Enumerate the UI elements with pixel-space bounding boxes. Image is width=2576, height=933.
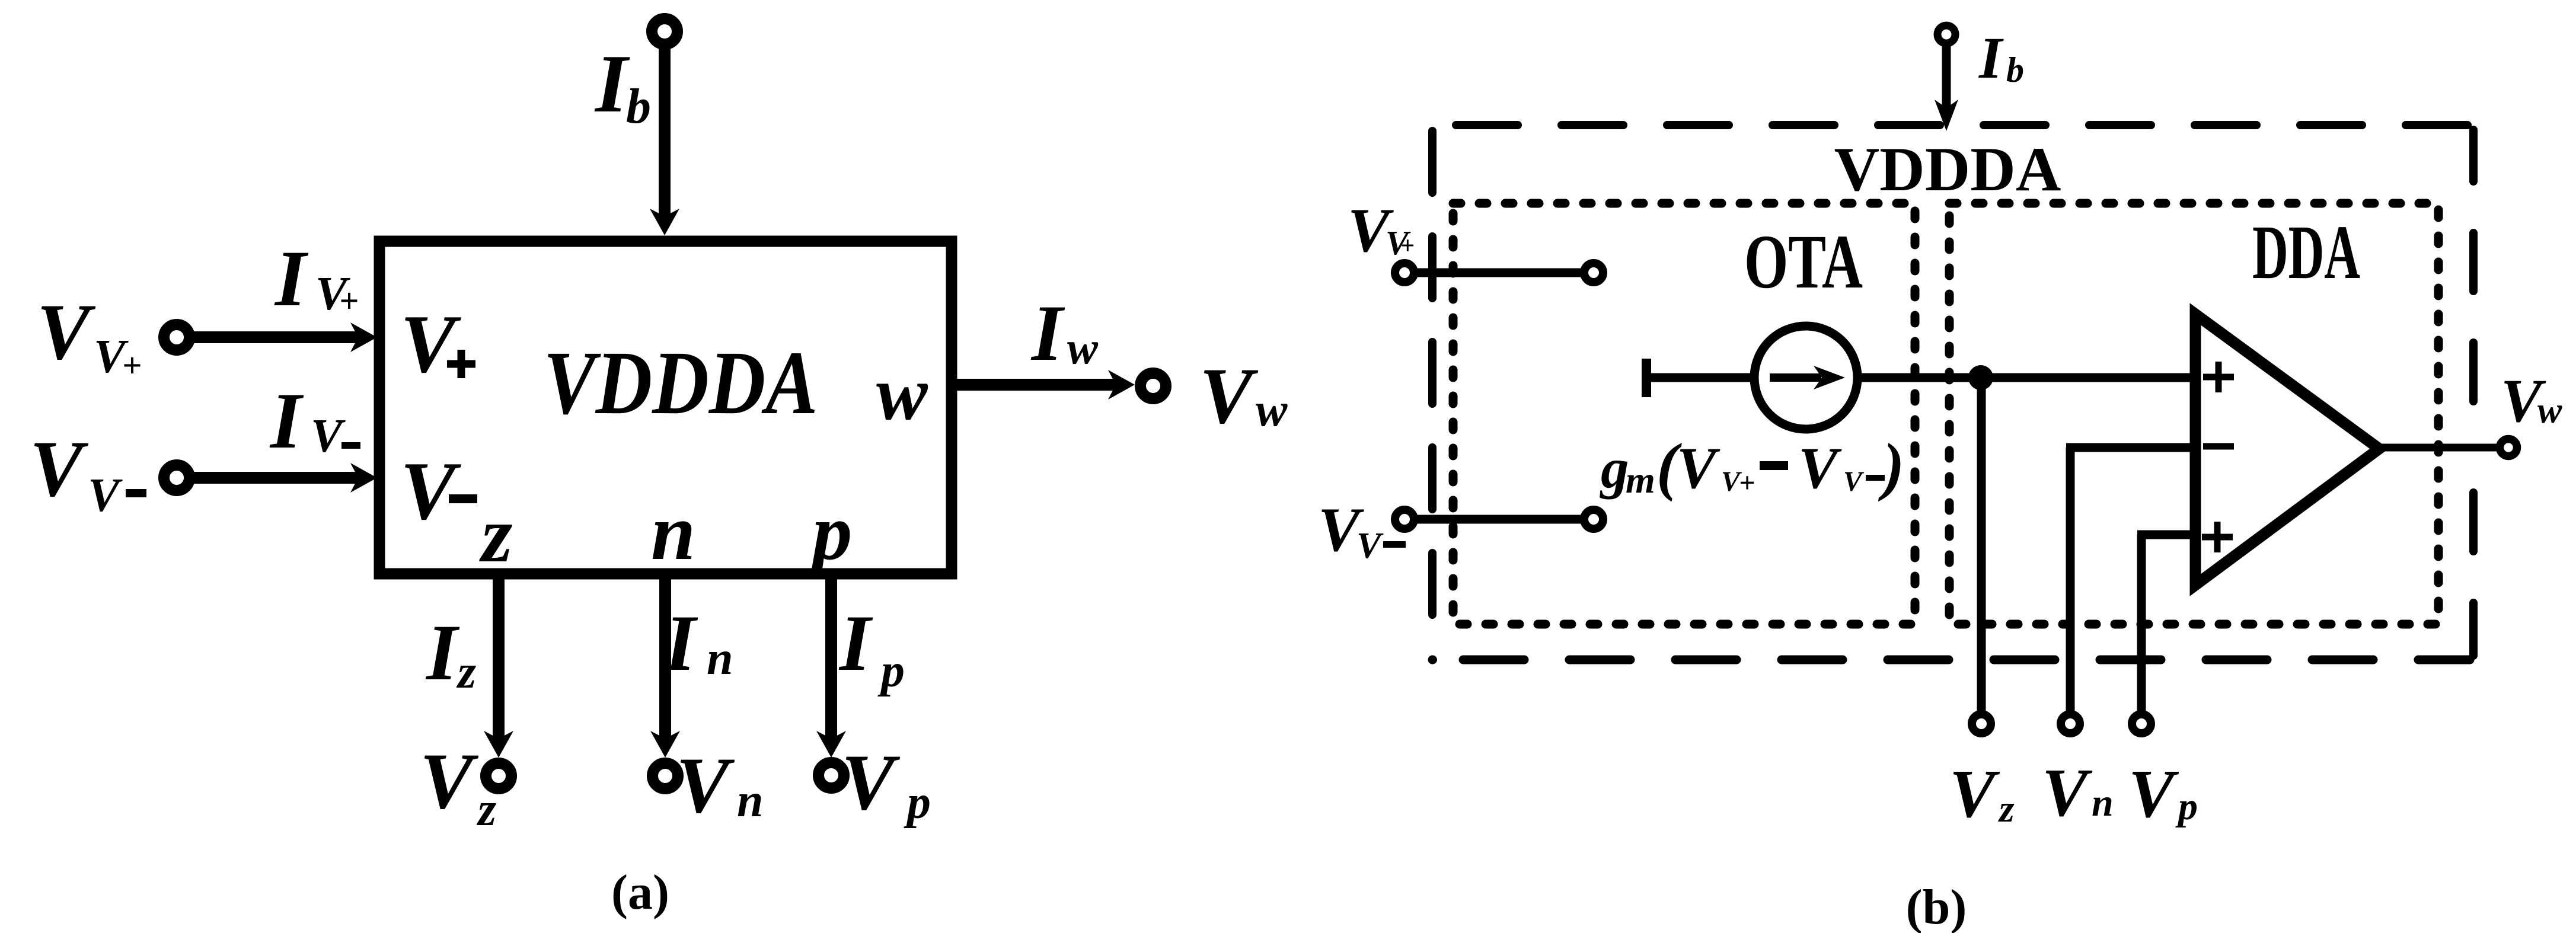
wire VV- stub	[1414, 515, 1584, 524]
terminal Vp (a)	[819, 763, 844, 788]
svg-text:+: +	[339, 282, 359, 320]
terminal Vz (b)	[1972, 714, 1991, 733]
svg-text:n: n	[2092, 781, 2114, 825]
plus input 1 mark	[2203, 362, 2234, 392]
svg-text:V: V	[420, 737, 479, 826]
svg-text:+: +	[122, 346, 142, 385]
svg-text:DDA: DDA	[2252, 210, 2360, 295]
wire junction down to Vz	[1977, 378, 1986, 711]
svg-text:V: V	[88, 469, 123, 522]
svg-text:n: n	[707, 632, 733, 685]
wire Vp vertical	[2137, 535, 2146, 711]
svg-text:+: +	[1400, 232, 1415, 260]
terminal Vz (a)	[486, 763, 512, 789]
svg-text:V: V	[1677, 435, 1720, 501]
svg-text:OTA: OTA	[1744, 219, 1863, 305]
svg-text:b: b	[626, 79, 651, 134]
svg-text:w: w	[1067, 322, 1099, 373]
terminal VV+	[164, 325, 190, 350]
terminal Vw (b)	[2500, 439, 2517, 456]
arrow Ib (b)	[1935, 100, 1958, 131]
arrow into V-	[350, 463, 377, 493]
arrow z	[484, 731, 513, 758]
arrow Ib into box	[650, 209, 679, 235]
svg-text:+: +	[1739, 467, 1755, 499]
svg-text:n: n	[651, 488, 695, 577]
svg-text:w: w	[1256, 384, 1288, 436]
terminal VV+ (b)	[1395, 263, 1414, 282]
terminal Vw (a)	[1141, 373, 1166, 399]
current source arrow	[1770, 373, 1821, 382]
svg-text:V: V	[37, 288, 96, 376]
wire VV+ stub	[1414, 269, 1584, 277]
svg-text:p: p	[904, 777, 931, 829]
wire Ib (a)	[659, 44, 671, 221]
svg-text:VDDDA: VDDDA	[1834, 135, 2061, 204]
svg-text:p: p	[877, 645, 905, 697]
VDDDA block U1	[379, 241, 952, 574]
arrow n	[650, 731, 680, 758]
wire Vn vertical	[2066, 448, 2075, 711]
svg-text:z: z	[456, 646, 476, 698]
DDA dotted box	[1949, 203, 2438, 624]
wire DDA output	[2374, 444, 2497, 452]
svg-text:I: I	[1978, 25, 2004, 91]
wire w output	[952, 379, 1121, 391]
svg-text:g: g	[1600, 437, 1629, 500]
wire n pin	[659, 574, 671, 742]
svg-text:w: w	[876, 351, 928, 436]
svg-text:I: I	[838, 599, 873, 688]
arrow into V+	[350, 322, 377, 352]
VDDDA outer dashed box	[1432, 125, 2473, 660]
arrow p	[816, 731, 846, 758]
svg-text:V: V	[2128, 756, 2179, 832]
svg-text:V: V	[30, 425, 89, 513]
svg-text:p: p	[2175, 785, 2198, 828]
svg-text:V: V	[1356, 526, 1384, 566]
terminal VV-	[164, 465, 190, 491]
wire Vp horizontal to DDA plus2	[2137, 531, 2190, 539]
svg-text:V: V	[1843, 466, 1865, 497]
svg-text:V: V	[1199, 352, 1259, 440]
svg-text:V: V	[400, 445, 461, 537]
svg-text:z: z	[476, 784, 496, 836]
OTA dotted box	[1453, 203, 1915, 624]
svg-text:z: z	[1998, 787, 2015, 830]
svg-text:(b): (b)	[1906, 880, 1967, 933]
svg-text:b: b	[2006, 50, 2024, 90]
op-amp DDA triangle	[2195, 314, 2379, 585]
svg-text:V: V	[676, 742, 735, 830]
wire Ib (b)	[1942, 44, 1951, 113]
wire VV- input	[190, 472, 363, 484]
junction node	[1968, 365, 1993, 390]
wire p pin	[825, 574, 837, 742]
wire VV+ input	[190, 331, 363, 343]
svg-text:I: I	[269, 377, 304, 465]
current source G1	[1754, 326, 1857, 429]
svg-text:VDDDA: VDDDA	[544, 333, 818, 433]
svg-text:I: I	[594, 38, 630, 130]
OTA output tee bar	[1642, 359, 1651, 397]
svg-text:p: p	[806, 488, 853, 577]
svg-text:): )	[1878, 430, 1904, 502]
arrow w output	[1108, 370, 1135, 400]
terminal Vp (b)	[2132, 714, 2151, 733]
wire Vn horizontal to DDA minus	[2066, 443, 2190, 452]
plus input 2 mark	[2202, 522, 2233, 552]
svg-text:I: I	[425, 609, 460, 697]
svg-text:V: V	[1798, 435, 1842, 501]
svg-text:V: V	[400, 298, 461, 390]
wire current source to junction to DDA	[1862, 373, 2190, 382]
svg-text:V: V	[841, 739, 901, 827]
terminal Ib (b)	[1937, 25, 1955, 43]
open node VV+ stub end	[1584, 263, 1603, 282]
wire tee to current source	[1646, 373, 1750, 382]
svg-text:z: z	[479, 491, 513, 579]
terminal Vn (b)	[2061, 714, 2080, 733]
svg-text:V: V	[1949, 756, 2000, 832]
wire z pin	[493, 574, 505, 742]
minus input mark	[2203, 443, 2234, 450]
terminal Ib (a)	[652, 19, 678, 44]
svg-text:I: I	[1030, 289, 1065, 378]
svg-text:(a): (a)	[611, 865, 669, 920]
svg-text:I: I	[663, 599, 698, 688]
svg-text:I: I	[274, 235, 309, 323]
svg-text:V: V	[2042, 755, 2093, 831]
terminal VV- (b)	[1395, 510, 1414, 529]
svg-text:m: m	[1626, 459, 1655, 501]
svg-text:V: V	[311, 410, 346, 462]
svg-text:n: n	[737, 775, 764, 827]
open node VV- stub end	[1584, 510, 1603, 529]
svg-text:w: w	[2537, 391, 2562, 431]
terminal Vn (a)	[653, 763, 678, 789]
